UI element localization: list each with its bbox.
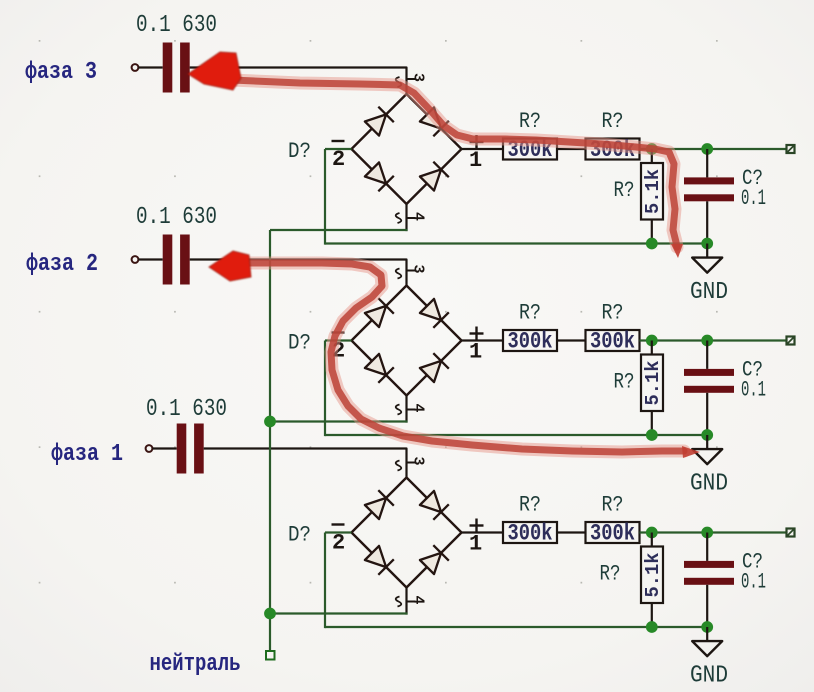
resistor R? 300k (first), phase 2 [503, 330, 557, 351]
wire: bridge pin 1 to resistor R? 300k (first), phase 2 [462, 339, 504, 341]
svg-text:GND: GND [690, 279, 728, 306]
junction node (neutral to phase-1 bridge return) [264, 608, 276, 620]
bridge rectifier D? (phase 2) [332, 265, 484, 415]
svg-text:R?: R? [600, 562, 621, 587]
input terminal (open circle), phase 1 [146, 445, 153, 452]
resistor R? 5.1k (vertical), phase 1 [651, 533, 653, 547]
svg-text:0.1: 0.1 [741, 378, 766, 403]
wire: left vertical bus x=325, phase 2 [324, 341, 326, 437]
ground symbol GND, phase 3 [706, 244, 708, 258]
red marker arrow tip (end of phase-2 trace) [682, 446, 700, 458]
output terminal square, phase 3 [787, 145, 795, 153]
svg-text:фаза 1: фаза 1 [51, 441, 123, 468]
wire: input terminal to series capacitor, phase 1 [152, 447, 176, 449]
wire: pin4/neutral U-bottom, phase 2 [270, 420, 408, 422]
svg-text:R?: R? [602, 109, 624, 134]
resistor R? 300k (second), phase 3 [586, 139, 640, 160]
wire: between 300k resistors, phase 1 [557, 531, 586, 533]
ground symbol GND, phase 1 [706, 627, 708, 641]
svg-text:300k: 300k [508, 329, 553, 355]
svg-text:5.1k: 5.1k [642, 361, 664, 406]
input terminal (open circle), phase 2 [132, 256, 139, 263]
junction node (top of C?), phase 2 [701, 335, 713, 347]
series capacitor C? 0.1/630 plates, phase 2 [163, 235, 190, 285]
wire: second 300k to junction and output terminal, phase 3 [640, 148, 787, 150]
wire: bridge pin 2 to left vertical, phase 1 [325, 531, 352, 533]
input terminal (open circle), phase 3 [132, 64, 139, 71]
svg-text:R?: R? [519, 493, 541, 518]
svg-text:R?: R? [614, 178, 635, 203]
junction node (top of 5.1k), phase 2 [646, 335, 658, 347]
wire: capacitor to bridge pin 3, phase 1 [204, 449, 407, 478]
neutral terminal square [266, 651, 275, 660]
svg-text:GND: GND [690, 471, 728, 498]
wire: between 300k resistors, phase 2 [557, 339, 586, 341]
svg-text:0.1: 0.1 [741, 186, 766, 211]
neutral vertical bus wire [269, 230, 271, 651]
svg-text:300k: 300k [590, 329, 635, 355]
svg-text:0.1 630: 0.1 630 [146, 396, 227, 423]
junction node (top of 5.1k), phase 1 [646, 527, 658, 539]
grid dots (decorative) [39, 40, 718, 584]
svg-text:R?: R? [602, 493, 624, 518]
wire: capacitor to bridge pin 3, phase 3 [190, 68, 407, 95]
wire: bridge pin 1 to resistor R? 300k (first), phase 3 [462, 148, 504, 150]
svg-text:0.1 630: 0.1 630 [136, 204, 217, 231]
junction node (top of C?), phase 1 [701, 527, 713, 539]
wire: bridge pin 4 stub down, phase 2 [405, 396, 407, 423]
capacitor C? 0.1 (output filter), phase 3 [706, 149, 708, 177]
wire: left vertical bus x=325, phase 3 [324, 149, 326, 245]
svg-text:GND: GND [690, 663, 728, 690]
junction node (C? to rail), phase 3 [701, 238, 713, 250]
wire: bridge pin 4 stub down, phase 3 [405, 204, 407, 231]
svg-text:R?: R? [519, 109, 541, 134]
wire: between 300k resistors, phase 3 [557, 148, 586, 150]
junction node (top of C?), phase 3 [701, 143, 713, 155]
svg-text:R?: R? [602, 301, 624, 326]
junction node (5.1k to rail), phase 2 [646, 429, 658, 441]
junction node (C? to rail), phase 1 [701, 621, 713, 633]
svg-text:5.1k: 5.1k [642, 553, 664, 598]
red marker trace: phase 3 path highlight [232, 80, 677, 247]
series capacitor C? 0.1/630 plates, phase 1 [177, 424, 204, 474]
bridge rectifier D? (phase 1) [332, 457, 484, 607]
wire: second 300k to junction and output terminal, phase 2 [640, 339, 787, 341]
resistor R? 300k (second), phase 2 [586, 330, 640, 351]
svg-text:фаза 2: фаза 2 [26, 251, 98, 278]
output terminal square, phase 1 [787, 529, 795, 537]
wire: bridge pin 2 to left vertical, phase 3 [325, 148, 352, 150]
svg-text:300k: 300k [590, 521, 635, 547]
wire: bottom rail, phase 1 [325, 626, 707, 628]
bridge rectifier D? (phase 3) [332, 73, 484, 223]
red marker arrow blob (start of phase-2 trace) [209, 251, 251, 281]
wire: pin4/neutral U-bottom, phase 1 [270, 612, 408, 614]
ground symbol GND, phase 2 [706, 435, 708, 449]
svg-text:5.1k: 5.1k [642, 169, 664, 214]
resistor R? 300k (second), phase 1 [586, 522, 640, 543]
svg-text:300k: 300k [508, 521, 553, 547]
junction node (top of 5.1k), phase 3 [646, 143, 658, 155]
capacitor C? 0.1 (output filter), phase 2 [706, 341, 708, 369]
wire: left vertical bus x=325, phase 1 [324, 533, 326, 629]
svg-text:D?: D? [288, 523, 311, 548]
wire: bridge pin 1 to resistor R? 300k (first), phase 1 [462, 531, 504, 533]
junction node (5.1k to rail), phase 3 [646, 238, 658, 250]
resistor R? 300k (first), phase 3 [503, 139, 557, 160]
red marker arrow tip (end of phase-3 trace) [671, 244, 683, 258]
svg-text:D?: D? [288, 331, 311, 356]
wire: bottom rail, phase 2 [325, 434, 707, 436]
svg-text:0.1: 0.1 [741, 570, 766, 595]
wire: bridge pin 2 to left vertical, phase 2 [325, 339, 352, 341]
junction node (C? to rail), phase 2 [701, 429, 713, 441]
wire: input terminal to series capacitor, phase 3 [138, 66, 162, 68]
wire: 5.1k bottom to rail junction, phase 1 [651, 603, 653, 627]
output terminal square, phase 2 [787, 337, 795, 345]
wire: bottom rail, phase 3 [325, 242, 707, 244]
resistor R? 5.1k (vertical), phase 3 [651, 149, 653, 163]
svg-text:R?: R? [519, 301, 541, 326]
resistor R? 5.1k (vertical), phase 2 [651, 341, 653, 355]
svg-text:R?: R? [614, 370, 635, 395]
wire: second 300k to junction and output terminal, phase 1 [640, 531, 787, 533]
svg-text:нейтраль: нейтраль [150, 651, 241, 678]
wire: pin4/neutral U-bottom, phase 3 [270, 229, 408, 231]
series capacitor C? 0.1/630 plates, phase 3 [163, 43, 190, 93]
wire: capacitor to bridge pin 3, phase 2 [190, 260, 407, 286]
red marker trace: phase 2 path highlight [244, 263, 684, 452]
svg-text:0.1 630: 0.1 630 [136, 12, 217, 39]
wire: input terminal to series capacitor, phase 2 [138, 258, 162, 260]
wire: bridge pin 4 stub down, phase 1 [405, 588, 407, 615]
resistor R? 300k (first), phase 1 [503, 522, 557, 543]
red marker arrow blob (start of phase-3 trace) [188, 52, 241, 90]
wire: 5.1k bottom to rail junction, phase 3 [651, 220, 653, 244]
capacitor C? 0.1 (output filter), phase 1 [706, 533, 708, 561]
junction node (neutral to phase-2 bridge return) [264, 416, 276, 428]
junction node (5.1k to rail), phase 1 [646, 621, 658, 633]
svg-text:фаза 3: фаза 3 [25, 59, 97, 86]
wire: 5.1k bottom to rail junction, phase 2 [651, 411, 653, 435]
svg-text:D?: D? [288, 139, 311, 164]
